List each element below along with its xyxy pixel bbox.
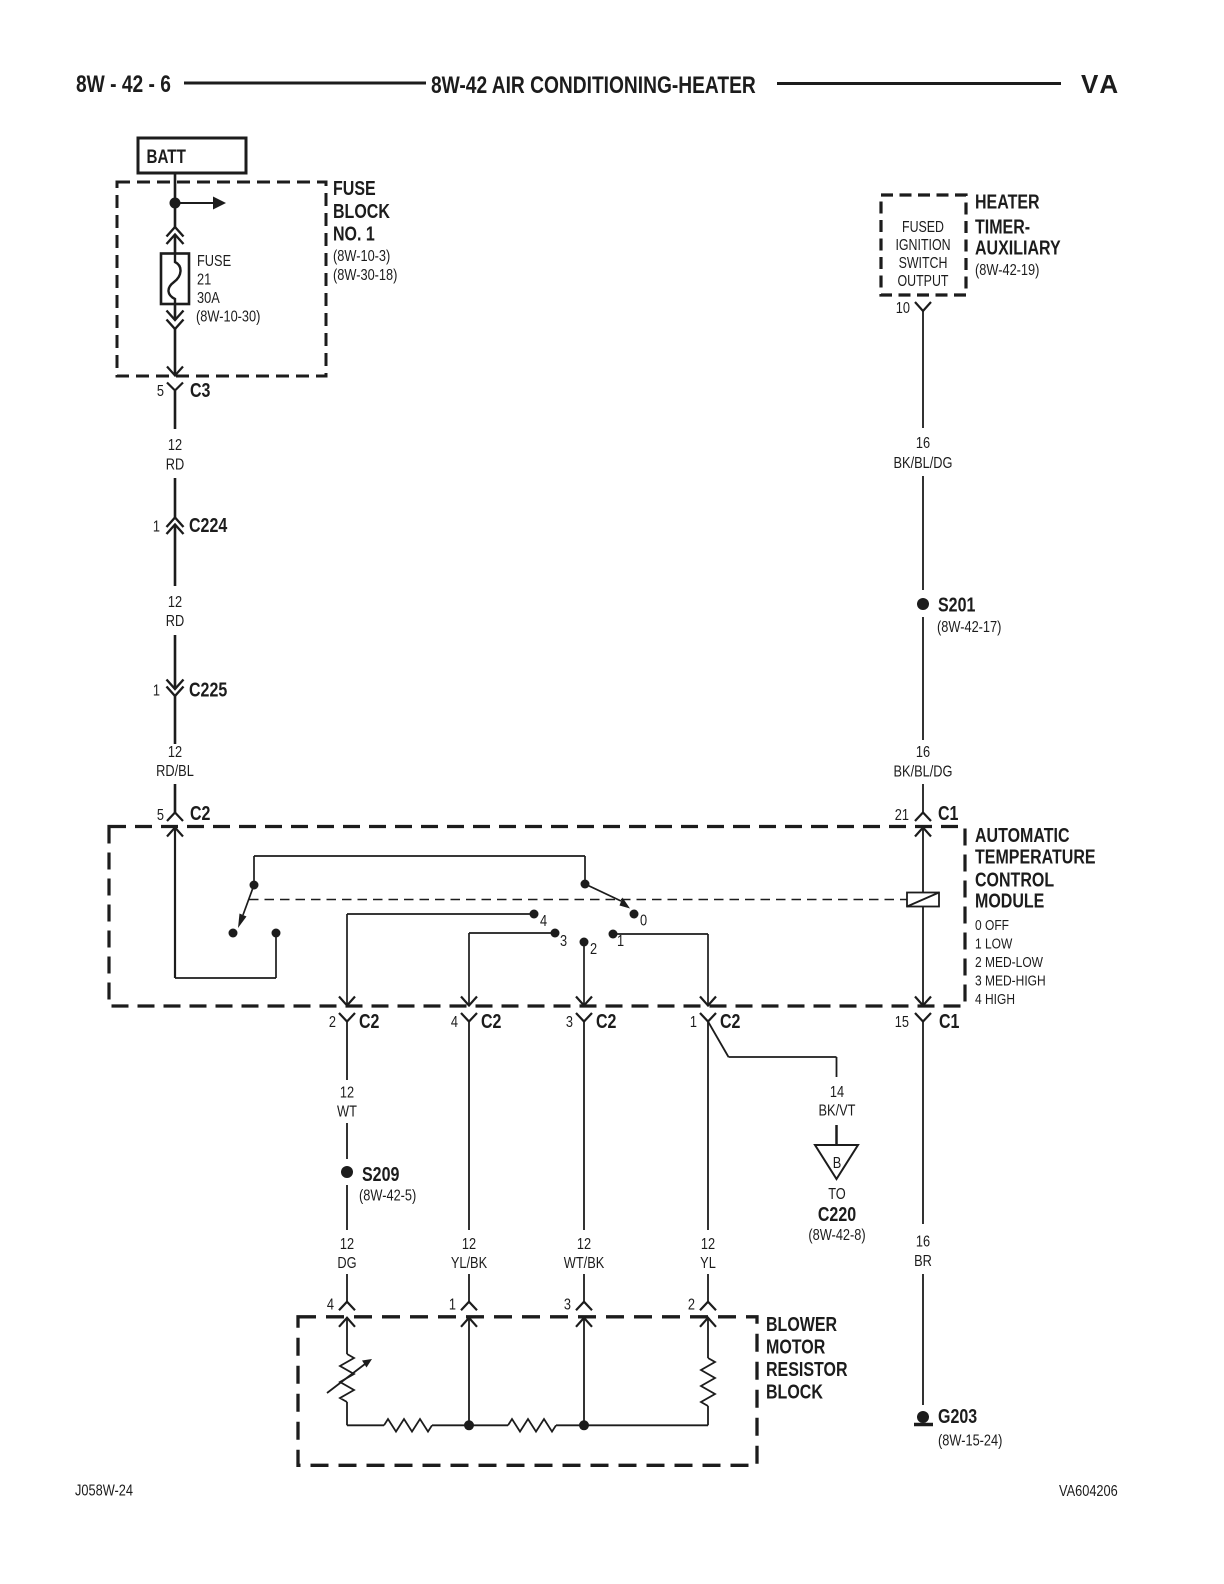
svg-text:WT/BK: WT/BK (564, 1255, 605, 1273)
svg-text:AUXILIARY: AUXILIARY (975, 237, 1061, 259)
svg-text:(8W-10-30): (8W-10-30) (196, 308, 260, 326)
svg-text:4 HIGH: 4 HIGH (975, 991, 1015, 1008)
svg-text:2: 2 (590, 941, 597, 959)
svg-text:G203: G203 (938, 1405, 977, 1427)
svg-text:(8W-30-18): (8W-30-18) (333, 267, 397, 285)
svg-text:0 OFF: 0 OFF (975, 917, 1009, 934)
svg-text:AUTOMATIC: AUTOMATIC (975, 824, 1070, 846)
svg-text:15: 15 (895, 1014, 909, 1032)
svg-text:BK/BL/DG: BK/BL/DG (894, 455, 953, 473)
svg-text:1: 1 (690, 1014, 697, 1032)
svg-text:C2: C2 (190, 802, 210, 824)
svg-text:0: 0 (640, 912, 647, 930)
svg-text:C1: C1 (939, 1010, 959, 1032)
svg-text:12: 12 (168, 437, 182, 455)
svg-text:2: 2 (329, 1014, 336, 1032)
svg-text:RD: RD (166, 456, 184, 474)
svg-text:30A: 30A (197, 290, 220, 308)
svg-text:DG: DG (337, 1255, 356, 1273)
svg-text:1: 1 (449, 1296, 456, 1314)
svg-text:YL/BK: YL/BK (451, 1255, 488, 1273)
svg-text:MODULE: MODULE (975, 890, 1044, 912)
svg-text:C225: C225 (189, 679, 227, 701)
svg-text:(8W-15-24): (8W-15-24) (938, 1432, 1002, 1450)
svg-text:(8W-42-5): (8W-42-5) (359, 1187, 416, 1205)
svg-text:(8W-42-19): (8W-42-19) (975, 262, 1039, 280)
svg-text:S201: S201 (938, 594, 975, 616)
svg-text:RD: RD (166, 613, 184, 631)
svg-text:2 MED-LOW: 2 MED-LOW (975, 954, 1043, 971)
svg-text:VA: VA (1081, 69, 1121, 99)
svg-text:HEATER: HEATER (975, 191, 1040, 213)
svg-text:3: 3 (560, 933, 567, 951)
svg-text:J058W-24: J058W-24 (75, 1482, 133, 1500)
svg-text:TO: TO (828, 1186, 846, 1204)
svg-text:10: 10 (896, 300, 910, 318)
svg-text:YL: YL (700, 1255, 716, 1273)
svg-text:C2: C2 (720, 1010, 740, 1032)
svg-text:BLOCK: BLOCK (766, 1381, 823, 1403)
svg-text:21: 21 (895, 807, 909, 825)
svg-text:1 LOW: 1 LOW (975, 935, 1012, 952)
svg-text:B: B (833, 1155, 842, 1173)
svg-text:4: 4 (540, 913, 547, 931)
svg-text:16: 16 (916, 1233, 930, 1251)
svg-text:12: 12 (340, 1084, 354, 1102)
svg-text:TEMPERATURE: TEMPERATURE (975, 846, 1096, 868)
svg-text:CONTROL: CONTROL (975, 869, 1054, 891)
svg-text:BR: BR (914, 1253, 932, 1271)
svg-text:12: 12 (168, 744, 182, 762)
svg-text:1: 1 (617, 933, 624, 951)
svg-text:WT: WT (337, 1103, 357, 1121)
svg-text:4: 4 (451, 1014, 458, 1032)
svg-text:SWITCH: SWITCH (899, 254, 948, 272)
svg-text:12: 12 (577, 1236, 591, 1254)
svg-text:C3: C3 (190, 379, 210, 401)
svg-text:BLOWER: BLOWER (766, 1313, 837, 1335)
svg-text:TIMER-: TIMER- (975, 216, 1030, 238)
svg-text:OUTPUT: OUTPUT (898, 272, 949, 290)
svg-text:21: 21 (197, 271, 211, 289)
svg-text:BLOCK: BLOCK (333, 200, 390, 222)
svg-text:C2: C2 (481, 1010, 501, 1032)
svg-text:FUSED: FUSED (902, 218, 944, 236)
svg-text:12: 12 (340, 1236, 354, 1254)
svg-text:12: 12 (701, 1236, 715, 1254)
svg-text:16: 16 (916, 744, 930, 762)
svg-text:BATT: BATT (147, 145, 187, 167)
svg-text:C2: C2 (596, 1010, 616, 1032)
svg-text:(8W-42-17): (8W-42-17) (937, 619, 1001, 637)
svg-text:3: 3 (566, 1014, 573, 1032)
svg-text:5: 5 (157, 807, 164, 825)
svg-text:3: 3 (564, 1296, 571, 1314)
svg-text:14: 14 (830, 1084, 844, 1102)
svg-text:1: 1 (153, 518, 160, 536)
svg-text:C1: C1 (938, 802, 958, 824)
svg-text:BK/BL/DG: BK/BL/DG (894, 763, 953, 781)
svg-text:IGNITION: IGNITION (895, 236, 950, 254)
svg-text:S209: S209 (362, 1163, 399, 1185)
svg-text:MOTOR: MOTOR (766, 1336, 825, 1358)
svg-text:16: 16 (916, 435, 930, 453)
svg-text:4: 4 (327, 1296, 334, 1314)
svg-text:BK/VT: BK/VT (819, 1102, 856, 1120)
svg-text:8W - 42 - 6: 8W - 42 - 6 (76, 70, 171, 98)
svg-text:3 MED-HIGH: 3 MED-HIGH (975, 972, 1046, 989)
svg-text:RD/BL: RD/BL (156, 763, 194, 781)
svg-text:C2: C2 (359, 1010, 379, 1032)
svg-text:8W-42 AIR CONDITIONING-HEATER: 8W-42 AIR CONDITIONING-HEATER (431, 71, 756, 99)
svg-text:12: 12 (168, 594, 182, 612)
svg-text:RESISTOR: RESISTOR (766, 1358, 847, 1380)
svg-text:2: 2 (688, 1296, 695, 1314)
svg-text:5: 5 (157, 383, 164, 401)
svg-text:C224: C224 (189, 514, 227, 536)
svg-text:12: 12 (462, 1236, 476, 1254)
svg-text:FUSE: FUSE (333, 177, 376, 199)
svg-text:VA604206: VA604206 (1059, 1483, 1118, 1501)
svg-text:NO. 1: NO. 1 (333, 223, 375, 245)
svg-text:1: 1 (153, 682, 160, 700)
svg-text:C220: C220 (818, 1203, 856, 1225)
svg-text:(8W-10-3): (8W-10-3) (333, 248, 390, 266)
svg-text:FUSE: FUSE (197, 253, 231, 271)
svg-text:(8W-42-8): (8W-42-8) (808, 1227, 865, 1245)
